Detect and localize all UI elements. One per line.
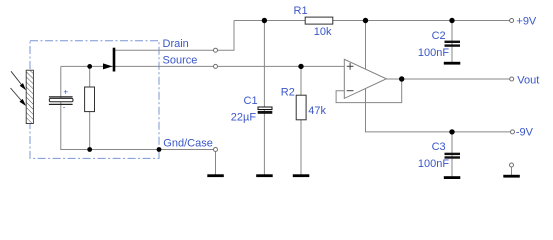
wire gate-source line: [61, 65, 345, 67]
terminal Vout: [510, 77, 514, 81]
terminal ground bottom right: [510, 163, 514, 167]
svg-text:R2: R2: [281, 87, 295, 99]
svg-text:-: -: [63, 103, 66, 112]
svg-text:Drain: Drain: [163, 38, 189, 50]
svg-text:+9V: +9V: [516, 15, 537, 27]
wire output Vout: [386, 78, 510, 80]
svg-text:47k: 47k: [308, 105, 326, 117]
svg-text:+: +: [63, 88, 68, 97]
terminal source: [214, 64, 218, 68]
wire R2 branch: [300, 66, 302, 175]
svg-text:100nF: 100nF: [418, 158, 449, 170]
internal resistor: [85, 87, 95, 112]
terminal -9V: [511, 130, 515, 134]
svg-text:Gnd/Case: Gnd/Case: [163, 138, 213, 150]
terminal +9V: [510, 19, 514, 23]
junction op-amp power top: [363, 18, 368, 23]
resistor R2: [296, 95, 306, 120]
sound wave arrow 1: [11, 71, 26, 90]
junction internal resistor ground: [87, 147, 92, 152]
svg-text:Source: Source: [163, 54, 198, 66]
ground R2: [293, 174, 310, 177]
svg-text:10k: 10k: [314, 26, 332, 38]
wire feedback loop: [336, 79, 402, 103]
wire op-amp power line: [365, 21, 367, 132]
junction C3: [449, 129, 454, 134]
junction R2 top: [298, 64, 303, 69]
wire C2 branch: [451, 21, 453, 63]
resistor R1: [305, 17, 333, 24]
wire C1 branch: [263, 21, 265, 176]
wire mic ground: [60, 149, 215, 151]
electret capacitor: [49, 88, 73, 112]
capacitor C3: [445, 153, 461, 159]
svg-text:C1: C1: [244, 95, 258, 107]
wire top rail +9V: [234, 20, 510, 22]
junction C2 top: [449, 18, 454, 23]
junction C1 top: [262, 18, 267, 23]
capacitor C2: [445, 41, 461, 47]
junction internal resistor gate: [87, 64, 92, 69]
sound wave arrow 2: [11, 88, 27, 106]
wire electret branch: [60, 66, 62, 149]
svg-text:C2: C2: [432, 30, 446, 42]
wire drain jog horizontal: [216, 49, 235, 51]
ground C1: [256, 174, 273, 177]
svg-text:100nF: 100nF: [418, 47, 449, 59]
microphone membrane: [26, 70, 33, 123]
ground C3: [444, 176, 461, 179]
wire drain: [115, 49, 216, 51]
wire drain jog vertical: [233, 21, 235, 51]
svg-text:22µF: 22µF: [231, 112, 257, 124]
junction case ground: [157, 147, 162, 152]
wire C3 branch: [451, 132, 453, 177]
wire internal resistor branch: [89, 66, 91, 149]
svg-text:R1: R1: [294, 5, 308, 17]
capacitor C1: [258, 107, 273, 114]
ground mic case: [207, 174, 224, 177]
svg-text:Vout: Vout: [517, 74, 539, 86]
enclosure dashed box (microphone case): [30, 41, 159, 159]
svg-text:C3: C3: [432, 141, 446, 153]
terminal drain: [214, 48, 218, 52]
junction output feedback: [399, 76, 404, 81]
wire standalone ground stub: [511, 165, 513, 176]
JFET Q1: [103, 48, 115, 72]
op-amp U1: [344, 59, 386, 98]
wire -9V rail: [365, 131, 511, 133]
terminal gnd/case: [214, 148, 218, 152]
ground C2: [444, 62, 461, 65]
ground terminal bottom right: [503, 175, 520, 178]
wire gnd/case drop: [215, 150, 217, 176]
svg-text:-9V: -9V: [516, 127, 534, 139]
